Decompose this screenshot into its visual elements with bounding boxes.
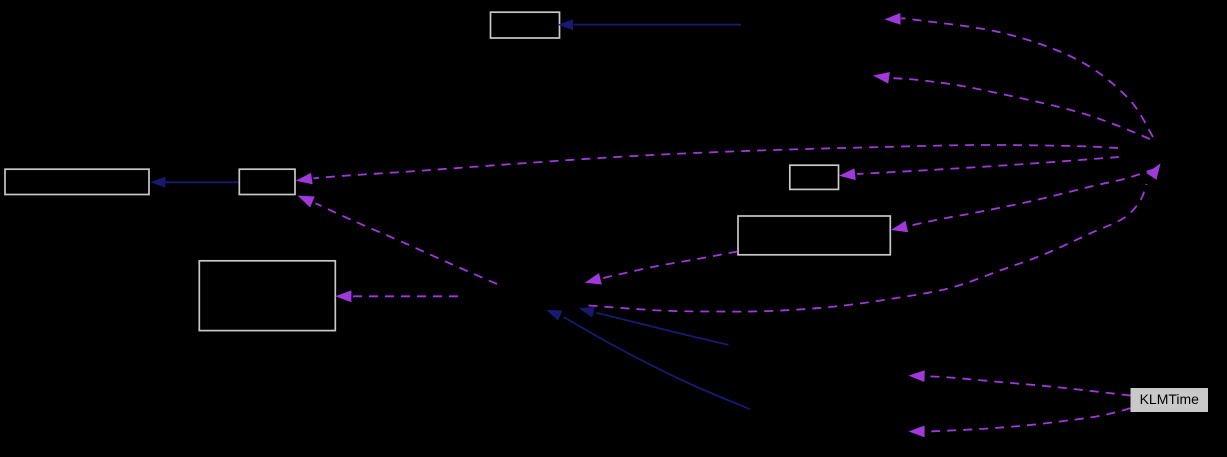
dashed edge hub2 to hub1 bbox=[589, 163, 1161, 311]
dashed edge hub1 to N3 bbox=[296, 145, 1118, 184]
dashed edge hub1 to top-left arrow bbox=[884, 13, 1153, 137]
blue edge N3 to N2 bbox=[150, 177, 238, 188]
svg-text:KLMTime: KLMTime bbox=[1140, 391, 1200, 407]
blue edge into N1 bbox=[558, 19, 741, 30]
blue edge into hub (upper) bbox=[579, 307, 729, 345]
blue edge into hub (lower) bbox=[546, 310, 750, 410]
dashed edge KLMTime to left node (lower) bbox=[908, 408, 1130, 437]
dashed edge KLMTime to left node (upper) bbox=[908, 370, 1130, 395]
node box N5 (middle wide, unlabeled) bbox=[738, 216, 890, 255]
dashed edge hub1 to second arrow bbox=[873, 72, 1150, 139]
node box N6 (lower left large, unlabeled) bbox=[199, 261, 335, 331]
dashed edge hub1 to N4 bbox=[839, 157, 1119, 180]
dashed edge hub2 to N6 bbox=[335, 290, 458, 302]
dashed edge hub2 to N3 corner bbox=[298, 196, 498, 284]
node box N4 (middle right small, unlabeled) bbox=[790, 165, 839, 189]
node KLMTime (current, gray filled) bbox=[1131, 388, 1209, 412]
dashed edge hub1 to N5 bbox=[891, 169, 1155, 232]
node box N1 (top, unlabeled) bbox=[491, 12, 560, 38]
dashed edge N5 to hub2 bbox=[585, 252, 738, 285]
node box N3 (left small, unlabeled) bbox=[239, 169, 295, 194]
node box N2 (far left, unlabeled) bbox=[5, 169, 149, 194]
